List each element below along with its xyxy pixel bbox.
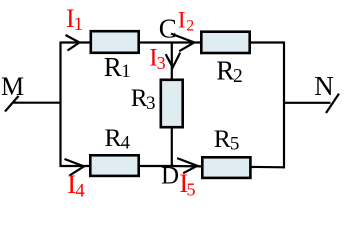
wire N stub — [284, 102, 331, 104]
wire top branch M-C-R2 — [61, 41, 285, 43]
wire left riser — [59, 42, 61, 168]
wire bottom branch left — [61, 165, 176, 167]
wire bottom branch right — [172, 166, 285, 167]
svg-text:I: I — [178, 7, 186, 32]
svg-text:3: 3 — [146, 93, 156, 114]
resistor R3 — [161, 80, 183, 127]
wire M stub — [14, 102, 61, 104]
current arrow I1 — [66, 35, 80, 51]
terminal slash M — [5, 96, 19, 112]
svg-text:M: M — [1, 72, 24, 101]
resistor R4 — [90, 155, 138, 176]
svg-text:C: C — [159, 14, 177, 44]
wire R3 to D — [171, 127, 173, 166]
current arrow I4 — [65, 159, 85, 176]
svg-text:1: 1 — [121, 61, 131, 82]
svg-text:2: 2 — [186, 17, 194, 34]
wire right riser — [283, 42, 285, 169]
svg-text:2: 2 — [233, 66, 243, 87]
svg-text:N: N — [314, 71, 334, 101]
svg-text:5: 5 — [187, 180, 196, 199]
svg-text:D: D — [161, 163, 179, 190]
svg-text:1: 1 — [74, 14, 84, 35]
current arrow I5 — [177, 158, 197, 173]
svg-text:R: R — [105, 123, 122, 152]
current arrow I2 — [171, 34, 194, 52]
resistor R1 — [91, 31, 139, 53]
svg-text:4: 4 — [75, 181, 85, 199]
resistor R2 — [201, 32, 249, 53]
svg-text:4: 4 — [121, 134, 130, 154]
wire C to R3 — [171, 43, 173, 81]
svg-text:5: 5 — [230, 134, 240, 155]
svg-text:R: R — [216, 56, 234, 86]
svg-text:R: R — [214, 124, 231, 153]
svg-text:3: 3 — [157, 53, 166, 73]
current arrow I3 — [166, 53, 181, 68]
svg-text:R: R — [104, 52, 122, 82]
terminal slash N — [326, 94, 339, 113]
resistor R5 — [202, 157, 250, 178]
